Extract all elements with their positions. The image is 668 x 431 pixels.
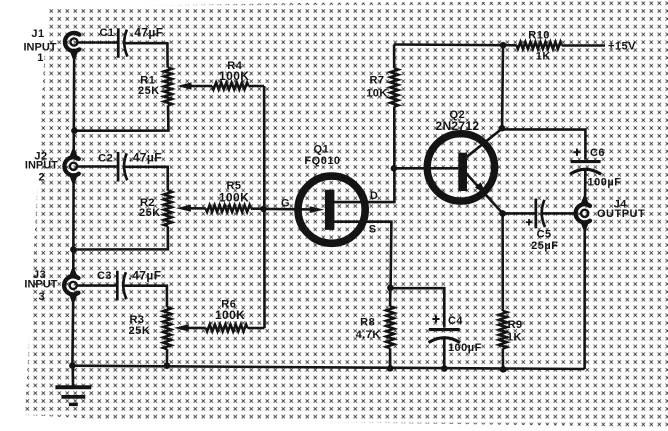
svg-text:R7: R7 — [369, 75, 384, 87]
svg-text:25K: 25K — [138, 85, 160, 97]
wire R8 bottom to ground bus — [389, 348, 392, 368]
node G (gate label) — [281, 197, 290, 209]
capacitor C2 .47uF — [98, 151, 162, 182]
capacitor C6 100uF — [570, 147, 622, 188]
wire ground bus (bottom) — [72, 366, 584, 369]
wire R9 bottom to ground bus — [501, 349, 504, 370]
wire source line Q1 — [334, 222, 391, 288]
connector J3 (input 3 jack) — [24, 268, 78, 303]
wire top supply rail — [394, 43, 516, 46]
junction node R2-return / left bus — [70, 246, 77, 253]
wire C4 branch — [390, 288, 444, 327]
junction node R1-return / left bus — [71, 127, 78, 134]
svg-text:C3: C3 — [97, 270, 112, 282]
svg-text:D: D — [370, 190, 378, 202]
svg-text:25µF: 25µF — [531, 240, 558, 252]
wiper arrow of R2 — [176, 205, 206, 212]
svg-text:.47µF: .47µF — [129, 268, 162, 282]
svg-text:2: 2 — [38, 172, 45, 184]
svg-text:C5: C5 — [537, 229, 552, 241]
connector J2 (input 2 jack) — [25, 149, 79, 183]
svg-text:Q1: Q1 — [314, 144, 330, 156]
wire left bus J3 to ground corner — [71, 295, 74, 366]
wire emitter to C5 — [503, 212, 536, 215]
wire collector to C6 — [502, 129, 585, 159]
junction node R9 / ground bus — [500, 366, 507, 373]
junction node left bus / ground bus — [69, 362, 76, 369]
resistor R4 100K — [212, 60, 249, 89]
wire R1 bottom to left bus — [75, 105, 168, 130]
junction node R8 / ground bus — [387, 365, 394, 372]
wire J3 to C3 — [77, 284, 116, 287]
wire R6 to mix bus — [247, 327, 264, 330]
svg-text:C6: C6 — [590, 147, 605, 159]
capacitor C4 100uF — [429, 315, 482, 354]
wire C3 to R3 top — [124, 286, 168, 308]
junction node R3 / ground bus — [164, 362, 171, 369]
svg-text:OUTPUT: OUTPUT — [597, 208, 645, 220]
wire C6 to J4 — [584, 171, 587, 205]
resistor R9 1K — [499, 311, 523, 349]
svg-text:R9: R9 — [508, 319, 523, 331]
wire R7 bus (drain to top rail) — [393, 45, 396, 203]
resistor R6 100K — [206, 299, 248, 332]
svg-text:100K: 100K — [219, 69, 249, 83]
wire C5 to J4 — [543, 212, 577, 215]
svg-text:.47µF: .47µF — [131, 25, 164, 39]
node D (drain label) — [370, 190, 378, 202]
capacitor C5 25uF — [526, 199, 559, 253]
svg-text:4.7K: 4.7K — [356, 329, 381, 341]
svg-text:100µF: 100µF — [588, 177, 622, 189]
wire J2 to C2 — [78, 165, 117, 168]
svg-text:1K: 1K — [536, 50, 551, 62]
transistor Q1 FQ010 (JFET) — [298, 144, 365, 244]
potentiometer R3 25K — [129, 307, 171, 349]
wire C4 to ground bus — [443, 339, 446, 369]
wire mix bus vertical — [263, 86, 266, 328]
resistor R8 4.7K — [356, 307, 394, 349]
svg-text:.47µF: .47µF — [129, 151, 162, 165]
wire collector riser — [501, 45, 504, 128]
wire left bus J2-J3 — [72, 176, 75, 276]
wire C1 to R1 top — [125, 43, 168, 67]
capacitor C1 .47uF — [99, 25, 163, 57]
junction node collector rail / +15V rail — [500, 42, 507, 49]
svg-text:G: G — [281, 197, 290, 209]
svg-text:25K: 25K — [139, 207, 161, 219]
wire R2 bottom to left bus — [74, 226, 168, 249]
svg-text:3: 3 — [38, 291, 45, 303]
svg-text:100K: 100K — [215, 308, 245, 322]
svg-text:S: S — [369, 223, 377, 235]
wire C2 to R2 top — [124, 167, 168, 191]
net +15V supply label — [608, 40, 636, 52]
junction node source bus / C4 tap — [387, 285, 394, 292]
svg-text:10K: 10K — [366, 87, 388, 99]
junction node Q2 emitter — [499, 210, 506, 217]
junction node Q2 collector — [499, 125, 506, 132]
svg-text:1: 1 — [37, 52, 44, 64]
wire R8 top — [389, 288, 392, 307]
svg-text:+15V: +15V — [608, 40, 636, 52]
ground symbol — [55, 366, 91, 405]
svg-text:1K: 1K — [507, 332, 522, 344]
svg-text:100K: 100K — [219, 191, 249, 205]
wire R5 to gate junction — [251, 207, 264, 210]
svg-text:FQ010: FQ010 — [304, 155, 340, 167]
svg-text:INPUT: INPUT — [24, 279, 57, 291]
connector J1 (input 1 jack) — [24, 28, 80, 64]
wire R9 top — [501, 213, 504, 311]
svg-text:R10: R10 — [528, 29, 550, 41]
capacitor C3 .47uF — [97, 268, 161, 300]
transistor Q2 2N2712 — [427, 109, 502, 213]
wire R10 to +15V — [562, 44, 605, 47]
potentiometer R2 25K — [139, 191, 172, 227]
junction node R7 bus / Q2 base — [391, 165, 398, 172]
wire drain line Q1 to R7 bus — [334, 201, 396, 204]
wire left bus J1-J2 — [72, 51, 75, 157]
resistor R5 100K — [206, 180, 251, 212]
svg-text:2N2712: 2N2712 — [435, 119, 479, 133]
wire J1 to C1 — [78, 41, 117, 44]
resistor R10 1K — [517, 29, 562, 62]
potentiometer R1 25K — [138, 68, 172, 106]
svg-text:C4: C4 — [448, 315, 463, 327]
junction node C4 / ground bus — [441, 365, 448, 372]
svg-text:25K: 25K — [129, 325, 151, 337]
resistor R7 10K — [366, 68, 398, 106]
svg-text:100µF: 100µF — [448, 342, 482, 354]
junction node gate / mix bus — [260, 206, 267, 213]
svg-text:INPUT: INPUT — [25, 159, 58, 171]
svg-text:C1: C1 — [99, 27, 114, 39]
wire R4 to mix bus — [248, 85, 264, 88]
wiper arrow of R1 — [177, 82, 212, 89]
node S (source label) — [369, 223, 377, 235]
wire base junction to Q2 — [394, 167, 458, 170]
svg-text:R8: R8 — [360, 316, 375, 328]
wire J4 to ground bus — [583, 223, 586, 370]
wire gate line to Q1 — [264, 208, 311, 211]
connector J4 (output jack) — [576, 196, 646, 230]
svg-text:J1: J1 — [31, 28, 44, 40]
wiper arrow of R3 — [174, 324, 206, 331]
op-amp-region gate arrow of Q1 — [310, 206, 325, 213]
wire R3 bottom to ground bus — [166, 349, 169, 365]
svg-text:C2: C2 — [98, 152, 113, 164]
